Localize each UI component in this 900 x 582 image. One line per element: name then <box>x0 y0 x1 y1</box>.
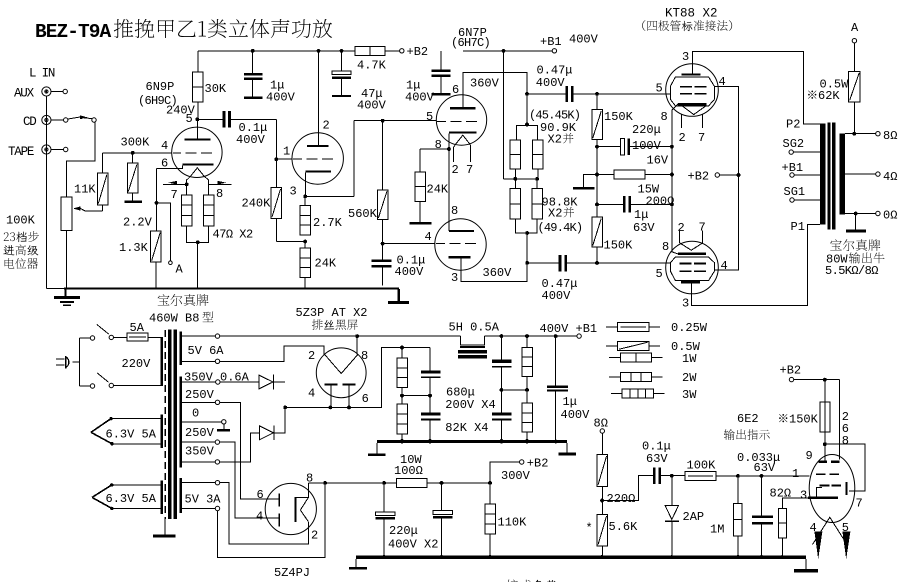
resistor 150K grid upper <box>592 94 634 147</box>
svg-text:6: 6 <box>257 488 264 502</box>
wire 5V6A to pin8 <box>355 334 359 354</box>
label bottom partial <box>507 580 558 582</box>
tap 5V6A bottom <box>182 346 324 364</box>
capacitor 1uF 400V stage decouple <box>405 51 451 105</box>
resistor 47ohm cathode 1 <box>181 184 192 226</box>
transformer power core <box>168 329 177 519</box>
winding 6.3V heater 2 <box>92 481 163 514</box>
tube V5 5Z3P rectifier <box>308 348 369 408</box>
label 220V <box>122 357 152 371</box>
wire V4 screen pin4 <box>714 175 738 270</box>
label 6N9P (6H9C) <box>138 80 177 108</box>
capacitor 680uF chain 4 <box>492 390 512 443</box>
svg-text:63V: 63V <box>646 452 668 466</box>
resistor 30K plate load <box>193 51 227 120</box>
rail +B1 left segment <box>220 335 461 337</box>
svg-text:4.7K: 4.7K <box>357 59 387 73</box>
ground secondary <box>846 214 866 233</box>
svg-text:7: 7 <box>171 188 178 202</box>
node 220uF A junction <box>382 481 386 485</box>
svg-text:5A: 5A <box>130 321 145 335</box>
svg-text:2.2V: 2.2V <box>123 216 153 230</box>
svg-text:5.5KΩ/8Ω: 5.5KΩ/8Ω <box>825 264 878 278</box>
wire CD switch to volume pot <box>67 122 95 197</box>
wire 47ohm join to ground <box>187 226 209 289</box>
resistor 82K chain 1 <box>397 348 430 398</box>
tube V2a 6N7P upper <box>426 72 487 177</box>
transformer output secondary <box>839 134 845 215</box>
svg-text:3W: 3W <box>682 388 697 402</box>
svg-text:400V +B1: 400V +B1 <box>540 322 598 336</box>
label L IN <box>29 67 55 81</box>
label KT88 X2 <box>665 7 718 21</box>
label 6E2 output indicator <box>724 412 770 440</box>
svg-text:250V: 250V <box>185 426 215 440</box>
ground 15W resistor <box>573 175 597 190</box>
wire V3 grid <box>666 93 671 95</box>
label 680uF 200V X4 82K X4 <box>445 385 495 435</box>
winding primary 220V <box>160 337 163 386</box>
svg-text:400V: 400V <box>569 33 599 47</box>
wire V3 anode to transformer P2 <box>693 52 820 125</box>
wire 82ohm cathode <box>770 486 812 508</box>
wire common cathode link <box>448 149 450 231</box>
terminal A feedback <box>851 21 859 43</box>
wire V1b cathode node <box>303 121 354 199</box>
transformer power shield <box>153 330 175 537</box>
resistor 82K chain 4 <box>522 390 533 443</box>
tap 5V6A top <box>182 334 224 358</box>
svg-text:4: 4 <box>161 139 168 153</box>
capacitor 1uF 400V B1 <box>547 336 590 441</box>
resistor 24K <box>300 242 337 289</box>
wire grid line to 300K and tube <box>103 151 172 155</box>
capacitor 1uF 400V decoupling <box>244 51 296 105</box>
svg-text:63V: 63V <box>633 221 655 235</box>
node 240K/2.7K/24K junction <box>276 240 307 244</box>
svg-text:300V: 300V <box>501 469 531 483</box>
svg-text:*: * <box>586 522 593 536</box>
label 16V <box>647 154 669 168</box>
svg-text:8: 8 <box>842 434 849 448</box>
tube V2b 6N7P lower <box>425 204 528 285</box>
svg-text:150K: 150K <box>604 239 634 253</box>
terminal SG2 <box>783 137 820 154</box>
svg-text:+B2: +B2 <box>407 45 429 59</box>
capacitor 0.1uF 400V coupling <box>197 111 276 147</box>
legend 3W resistor <box>611 388 697 402</box>
svg-text:47Ω X2: 47Ω X2 <box>213 228 254 242</box>
wire cathode link to V4 <box>672 147 678 254</box>
potentiometer 100K volume <box>61 197 102 230</box>
svg-text:0.25W: 0.25W <box>671 321 708 335</box>
resistor 150K indicator <box>779 380 830 446</box>
svg-text:1M: 1M <box>710 522 724 536</box>
svg-text:(49.4K): (49.4K) <box>538 221 583 235</box>
capacitor 220uF 400V b <box>433 483 453 556</box>
svg-text:+B2: +B2 <box>780 364 802 378</box>
winding secondary HV <box>180 377 183 468</box>
tube V1a 6N9P triode 1 <box>161 112 223 202</box>
terminal 8ohm sense <box>594 417 608 455</box>
label 220uF 400V X2 <box>388 524 438 551</box>
tap 350V upper + diode D1 <box>182 371 285 390</box>
svg-text:8Ω: 8Ω <box>594 417 608 431</box>
svg-text:2: 2 <box>311 528 318 542</box>
resistor 82K chain 3 <box>522 336 533 392</box>
svg-text:SG2: SG2 <box>783 137 805 151</box>
svg-text:200Ω: 200Ω <box>646 195 675 209</box>
svg-text:460W B8: 460W B8 <box>149 312 199 326</box>
wire secondary 0ohm <box>845 209 898 223</box>
legend 2W resistor <box>609 371 697 385</box>
ground bus lower <box>356 555 806 559</box>
svg-text:5V 6A: 5V 6A <box>188 344 225 358</box>
resistor 220ohm <box>597 455 635 506</box>
wire mains split <box>79 338 90 386</box>
terminal +B1 transformer <box>782 161 820 177</box>
ground symbol filter right <box>559 443 577 455</box>
svg-text:2: 2 <box>679 131 686 145</box>
svg-text:X2: X2 <box>548 133 562 147</box>
svg-text:1μ: 1μ <box>634 208 648 222</box>
capacitor 680uF chain 2 <box>421 396 441 443</box>
wire fuse to winding <box>148 337 160 339</box>
wire input bus vertical <box>45 96 47 288</box>
label transformer power brand <box>149 294 213 325</box>
wire V2a cathode to 24K tail <box>420 134 451 151</box>
resistor 150K grid lower <box>592 204 633 263</box>
label 47ohm X2 <box>213 228 254 242</box>
heater arrow right <box>209 181 232 185</box>
svg-text:8: 8 <box>361 349 368 363</box>
capacitor 0.47uF 400V lower <box>525 255 666 303</box>
svg-text:400V: 400V <box>536 76 566 90</box>
switch CD select <box>68 115 96 122</box>
label (45.45K) 90.9K X2 <box>529 109 580 147</box>
svg-text:24K: 24K <box>427 183 449 197</box>
node indicator input <box>670 474 674 478</box>
svg-text:300K: 300K <box>121 136 151 150</box>
wire node to test point A <box>157 203 184 277</box>
svg-text:P2: P2 <box>786 118 800 132</box>
capacitor 1uF 63V cathode <box>595 175 674 236</box>
resistor 24K tail <box>410 149 449 224</box>
svg-text:3: 3 <box>290 184 297 198</box>
svg-text:150K: 150K <box>789 413 819 427</box>
svg-text:400V: 400V <box>266 91 296 105</box>
capacitor 680uF chain 3 <box>492 336 527 392</box>
resistor 5.6K <box>586 501 639 558</box>
ground symbol lower left <box>349 559 367 570</box>
switch mains upper <box>90 325 127 341</box>
label 100K <box>6 214 36 228</box>
svg-text:2AP: 2AP <box>683 510 705 524</box>
resistor 47ohm cathode 2 <box>203 184 214 226</box>
resistor 100K indicator <box>672 459 740 481</box>
tube V1b 6N9P triode 2 <box>283 51 343 199</box>
terminal +B2 indicator <box>780 364 840 382</box>
title text BEZ-T9A <box>35 19 332 43</box>
svg-text:400V: 400V <box>357 99 387 113</box>
svg-text:1.3K: 1.3K <box>119 241 149 255</box>
node splitter grid junction <box>381 242 435 246</box>
svg-text:220μ: 220μ <box>632 123 661 137</box>
svg-text:400V: 400V <box>561 408 591 422</box>
wire pot to ground bus <box>66 230 68 288</box>
tap 250V upper <box>182 388 278 499</box>
terminal +B2 top <box>385 45 428 59</box>
resistor 300K grid leak <box>121 136 151 204</box>
winding secondary 5V3A <box>180 478 183 513</box>
svg-text:220Ω: 220Ω <box>607 492 636 506</box>
resistor 15W 200ohm cathode <box>595 147 674 209</box>
heater 6E2 with arrows <box>813 517 851 559</box>
wire rectifier plates bus <box>329 346 431 410</box>
svg-text:2: 2 <box>323 119 330 133</box>
tube V4 KT88 lower <box>656 221 728 311</box>
svg-text:62K: 62K <box>818 89 840 103</box>
wire V3 screen pin4 <box>714 86 740 177</box>
terminal +B1 <box>540 33 599 54</box>
fuse 5A <box>127 321 148 341</box>
svg-text:A: A <box>176 262 184 276</box>
svg-text:8Ω: 8Ω <box>883 129 897 143</box>
svg-text:100V: 100V <box>632 139 662 153</box>
node cathode network top <box>670 145 674 149</box>
label tetrode standard connection <box>642 20 732 31</box>
svg-text:P1: P1 <box>791 220 805 234</box>
svg-text:4Ω: 4Ω <box>883 170 897 184</box>
tap 350V lower + diode D2 <box>182 407 285 464</box>
svg-text:5Z4PJ: 5Z4PJ <box>274 566 310 580</box>
svg-text:8: 8 <box>451 204 458 218</box>
ground symbol bus right end <box>388 289 409 304</box>
svg-text:110K: 110K <box>498 516 528 530</box>
wire B2 rail top <box>198 49 355 53</box>
svg-text:9: 9 <box>806 449 813 463</box>
svg-text:30K: 30K <box>205 82 227 96</box>
legend 1W resistor <box>609 352 697 366</box>
heater arrow left <box>163 181 189 187</box>
capacitor 0.47uF 400V upper <box>525 64 666 103</box>
svg-text:2W: 2W <box>682 371 697 385</box>
svg-text:+B2: +B2 <box>688 170 710 184</box>
wire pin8 output <box>309 481 385 497</box>
plug AC mains <box>56 356 79 369</box>
svg-text:6.3V 5A: 6.3V 5A <box>106 427 157 441</box>
svg-text:220μ: 220μ <box>389 524 418 538</box>
ground symbol filter left <box>368 443 386 456</box>
wire V3 cathode pin8 down <box>672 104 678 147</box>
resistor 98.8K X2 pair <box>510 179 542 263</box>
winding secondary 5V6A <box>180 332 183 365</box>
terminal +B2 screen <box>688 170 739 184</box>
node 5 junction dot <box>195 118 199 122</box>
ground symbol main <box>54 288 80 306</box>
wire grid V2a line <box>354 119 436 123</box>
svg-text:L IN: L IN <box>29 67 55 81</box>
svg-text:3: 3 <box>682 297 689 311</box>
svg-text:6: 6 <box>452 83 459 97</box>
capacitor 0.033uF 63V <box>737 451 780 556</box>
svg-text:3: 3 <box>451 271 458 285</box>
resistor 4.7K dropper <box>355 46 387 72</box>
svg-text:200V X4: 200V X4 <box>445 398 495 412</box>
wire indicator grid <box>738 474 810 478</box>
wire pins 2 6 8 to B2 <box>840 380 849 460</box>
svg-text:0: 0 <box>192 407 199 421</box>
svg-text:63V: 63V <box>754 461 776 475</box>
label 2.2V <box>123 216 153 230</box>
svg-text:A: A <box>851 21 859 35</box>
resistor 1M <box>710 476 742 556</box>
wire V4 anode to transformer P1 <box>691 220 820 306</box>
capacitor 220uF 100V cathode <box>595 123 672 155</box>
resistor 560K <box>348 121 388 244</box>
svg-text:8: 8 <box>435 138 442 152</box>
svg-text:24K: 24K <box>315 257 337 271</box>
tap 250V lower <box>182 426 278 518</box>
svg-text:100K: 100K <box>687 459 717 473</box>
svg-text:4: 4 <box>425 230 432 244</box>
svg-text:400V X2: 400V X2 <box>388 537 438 551</box>
svg-text:8: 8 <box>216 187 223 201</box>
rail +B1 right segment <box>484 334 577 338</box>
svg-text:BEZ-T9A: BEZ-T9A <box>35 21 112 43</box>
resistor 82K chain 2 <box>397 396 408 443</box>
svg-text:400V: 400V <box>236 133 266 147</box>
svg-text:1W: 1W <box>682 352 697 366</box>
svg-text:8: 8 <box>661 110 668 124</box>
wire secondary 8ohm <box>845 129 898 143</box>
svg-text:360V: 360V <box>483 266 513 280</box>
tube V6 5Z4PJ rectifier <box>256 472 318 581</box>
svg-text:X2: X2 <box>548 207 562 221</box>
jack TAPE <box>8 145 68 159</box>
svg-text:SG1: SG1 <box>784 185 806 199</box>
wire V2a anode 360V <box>463 72 527 107</box>
svg-text:0Ω: 0Ω <box>883 209 897 223</box>
wire V4 grid <box>666 262 671 264</box>
svg-text:6.3V 5A: 6.3V 5A <box>106 492 157 506</box>
wire +B1 rail top <box>463 49 552 53</box>
resistor 1.3K feedback <box>119 231 161 288</box>
transformer output core <box>827 122 835 229</box>
svg-text:+B2: +B2 <box>527 457 549 471</box>
label 23-step attenuator <box>3 231 38 269</box>
svg-text:1: 1 <box>283 145 290 159</box>
wire +B1 dropper to mid node <box>503 51 505 179</box>
wire cathode pin6 to feedback node <box>155 168 169 231</box>
svg-text:350V 0.6A: 350V 0.6A <box>184 371 250 385</box>
svg-text:360V: 360V <box>470 77 500 91</box>
label 0.47uF upper values <box>595 92 599 96</box>
svg-text:5.6K: 5.6K <box>609 520 639 534</box>
svg-text:KT88 X2: KT88 X2 <box>665 7 718 21</box>
transformer output primary <box>786 118 825 225</box>
svg-text:7: 7 <box>856 497 863 511</box>
svg-text:+B1: +B1 <box>540 35 562 49</box>
svg-text:4: 4 <box>308 387 315 401</box>
diode 2AP <box>665 476 704 556</box>
label 5Z3P AT X2 <box>296 306 368 330</box>
legend 0.25W resistor <box>606 321 708 335</box>
svg-text:2: 2 <box>452 163 459 177</box>
svg-text:350V: 350V <box>185 445 215 459</box>
svg-text:1μ: 1μ <box>563 395 577 409</box>
svg-text:1: 1 <box>792 467 799 481</box>
ground main bus <box>46 287 398 289</box>
ground bus filter <box>377 440 567 444</box>
wire 150K to pin7 <box>825 444 865 491</box>
label 6N7P (6H7C) <box>451 26 490 50</box>
ground symbol lower right <box>794 559 818 573</box>
terminal SG1 <box>784 185 820 202</box>
svg-text:3: 3 <box>682 50 689 64</box>
svg-text:(6H7C): (6H7C) <box>451 36 490 50</box>
svg-text:7: 7 <box>699 221 706 235</box>
svg-text:240K: 240K <box>242 197 272 211</box>
tube V7 6E2 indicator <box>792 444 863 522</box>
svg-text:400V: 400V <box>405 91 435 105</box>
svg-text:400V: 400V <box>395 265 425 279</box>
tube V3 KT88 upper <box>656 50 726 145</box>
svg-text:TAPE: TAPE <box>8 145 34 159</box>
terminal +B1 400V main <box>540 322 598 338</box>
svg-text:6: 6 <box>362 392 369 406</box>
wire to V1b grid <box>274 119 292 161</box>
wire 5V3A top tap to pin2 <box>182 481 308 545</box>
capacitor 0.1uF 63V indicator <box>602 440 672 501</box>
svg-text:2: 2 <box>308 349 315 363</box>
label transformer brand <box>825 239 885 278</box>
svg-text:3: 3 <box>800 489 807 503</box>
resistor 110K bleeder <box>485 483 527 556</box>
resistor 90.9K X2 pair <box>504 94 544 181</box>
resistor 2.7K <box>300 196 343 235</box>
resistor 11K <box>74 153 108 205</box>
svg-text:CD: CD <box>23 115 36 129</box>
svg-text:5: 5 <box>186 112 193 126</box>
resistor 100ohm 10W <box>384 453 443 487</box>
wire +B2 takeoff <box>442 457 549 485</box>
tap 0V ground <box>182 407 230 432</box>
choke 5H 0.5A <box>449 321 500 359</box>
winding 6.3V heater 1 <box>91 415 163 449</box>
svg-text:560K: 560K <box>348 207 378 221</box>
label 240V <box>166 104 196 118</box>
svg-text:5Z3P AT X2: 5Z3P AT X2 <box>296 306 368 320</box>
svg-text:220V: 220V <box>122 357 152 371</box>
capacitor 47uF 400V <box>332 51 387 113</box>
capacitor 220uF 400V a <box>376 483 396 556</box>
svg-text:11K: 11K <box>74 183 96 197</box>
svg-text:150K: 150K <box>604 110 634 124</box>
svg-text:400V: 400V <box>542 289 572 303</box>
svg-text:6E2: 6E2 <box>737 412 759 426</box>
legend 0.5W resistor <box>606 340 701 354</box>
resistor 62K feedback <box>808 43 860 134</box>
svg-text:2: 2 <box>678 221 685 235</box>
wire 5V3A bottom tap to pin8 node <box>182 483 325 558</box>
svg-text:100K: 100K <box>6 214 36 228</box>
svg-text:82Ω: 82Ω <box>770 486 792 500</box>
resistor 82ohm <box>778 508 849 556</box>
svg-text:5: 5 <box>656 82 663 96</box>
svg-text:4: 4 <box>256 509 263 523</box>
resistor 240K grid leak V1b <box>242 159 282 241</box>
